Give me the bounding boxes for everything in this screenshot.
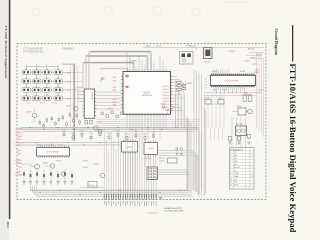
- key switch SW1001: [22, 68, 31, 74]
- RC network under voice IC: [205, 100, 211, 105]
- MCU left pins: [121, 75, 123, 77]
- svg-text:SW+: SW+: [234, 158, 238, 160]
- red arrows at MCU left: [126, 75, 130, 78]
- svg-text:R1007: R1007: [108, 109, 113, 111]
- svg-text:3: 3: [230, 158, 231, 160]
- svg-text:MC1001: MC1001: [236, 124, 243, 126]
- transistor Q1012: [50, 164, 54, 168]
- long verticals from MCU right bus: [193, 69, 195, 190]
- svg-text:C1050: C1050: [143, 134, 148, 136]
- svg-text:4: 4: [230, 161, 231, 163]
- svg-text:C1041: C1041: [47, 144, 52, 146]
- svg-text:X1003: X1003: [89, 185, 94, 187]
- svg-text:BU4094: BU4094: [91, 93, 93, 101]
- wires into DIP left: [78, 90, 83, 92]
- svg-text:R1049: R1049: [134, 131, 139, 133]
- caps row above bus: [101, 112, 103, 115]
- IC Q1002 (keypad interface, 16-pin DIP): [84, 89, 94, 118]
- punch hole marks: [32, 8, 40, 16]
- svg-text:8: 8: [230, 173, 231, 175]
- svg-text:R1018: R1018: [205, 98, 210, 100]
- key switch SW1013: [22, 94, 31, 100]
- right horizontal feeds: [249, 51, 264, 53]
- wires top of keypad columns: [25, 64, 27, 66]
- svg-text:HD404344: HD404344: [142, 95, 153, 97]
- svg-text:Q1009: Q1009: [148, 148, 154, 150]
- svg-text:6: 6: [230, 167, 231, 169]
- svg-text:C1012: C1012: [160, 104, 165, 106]
- key switch SW1009: [22, 86, 31, 92]
- svg-text:Q1004 T6658A: Q1004 T6658A: [224, 80, 239, 83]
- svg-text:C1002: C1002: [156, 46, 161, 48]
- svg-text:C1030: C1030: [159, 161, 164, 163]
- svg-text:C1001: C1001: [145, 46, 150, 48]
- bus from J1001 to right: [158, 169, 188, 171]
- analog switch IC Q1010 (wide DIP): [37, 148, 70, 157]
- svg-text:D3: D3: [205, 88, 207, 90]
- svg-text:AF OUT: AF OUT: [18, 141, 25, 144]
- svg-text:C1044: C1044: [89, 133, 94, 135]
- key switch SW1007: [43, 77, 52, 83]
- svg-text:R1026: R1026: [56, 161, 61, 163]
- svg-text:11: 11: [230, 182, 232, 184]
- svg-text:Q1008: Q1008: [127, 147, 133, 149]
- op-amp Q1009 (DIP): [144, 143, 158, 155]
- key switch SW1008: [54, 77, 63, 83]
- svg-text:R40/D4: R40/D4: [162, 98, 168, 100]
- key switch SW1002: [32, 68, 41, 74]
- svg-text:AF1: AF1: [18, 149, 21, 152]
- edge connector pin labels: [103, 201, 106, 204]
- svg-text:D2: D2: [205, 85, 207, 87]
- svg-text:FTT-10/A16S 16-Button Digital: FTT-10/A16S 16-Button Digital Voice Keyp…: [288, 64, 297, 234]
- horizontal wires under voice IC: [204, 92, 262, 94]
- coupling parts on centre bus: [63, 133, 65, 136]
- analog switch Q1008 (DIP): [122, 142, 138, 153]
- keypad row wires KR0-KR3: [22, 71, 67, 73]
- svg-text:X1002: X1002: [187, 83, 192, 85]
- key switch SW1004: [54, 68, 63, 74]
- key switch SW1015: [43, 94, 52, 100]
- svg-text:R1002: R1002: [26, 103, 31, 105]
- svg-text:R1041: R1041: [62, 130, 67, 132]
- connector signal table: [230, 148, 255, 190]
- key switch SW1014: [32, 94, 41, 100]
- horizontal wire bus centre: [22, 127, 199, 129]
- MCU bottom pins: [126, 114, 128, 116]
- junction dots: [30, 127, 31, 128]
- key switch SW1003: [43, 68, 52, 74]
- wires from Q1010 top: [37, 143, 39, 146]
- voice synthesizer IC Q1004 T6658A (SSOP): [210, 75, 255, 85]
- svg-text:C1022: C1022: [245, 61, 250, 63]
- svg-text:R1004: R1004: [52, 103, 57, 105]
- svg-text:R1030: R1030: [83, 161, 88, 163]
- key switch SW1006: [32, 77, 41, 83]
- MCU right pin wires: [173, 75, 178, 77]
- svg-text:R1001: R1001: [186, 45, 191, 47]
- audio amp Q1006: [238, 108, 246, 115]
- svg-text:D1: D1: [205, 82, 207, 84]
- filter box right of op-amp: [168, 158, 178, 163]
- key switch SW1016: [54, 94, 63, 100]
- right vertical bus bundle: [186, 117, 188, 191]
- svg-text:Circuit Diagram: Circuit Diagram: [274, 29, 279, 56]
- voice IC bottom wires: [214, 87, 216, 90]
- pin group underline: [148, 212, 159, 214]
- horizontal line to X1003: [80, 187, 104, 189]
- MCU Q1001 HD404344 (QFP): [123, 72, 171, 115]
- capacitors below resonator: [162, 106, 165, 108]
- svg-text:R20/D2: R20/D2: [162, 92, 168, 94]
- ground symbols mic: [228, 142, 231, 144]
- transistor Q1013: [61, 172, 65, 176]
- crystal X1001: [204, 48, 213, 59]
- svg-text:RST: RST: [18, 139, 21, 141]
- svg-text:12: 12: [230, 185, 232, 187]
- key switch SW1005: [22, 77, 31, 83]
- svg-text:A0-A3: A0-A3: [240, 70, 245, 73]
- svg-text:7: 7: [230, 170, 231, 172]
- svg-text:TC4W53: TC4W53: [144, 158, 151, 160]
- svg-text:9: 9: [230, 176, 231, 178]
- MCU top pin wires: [126, 52, 128, 70]
- caps to ground right of op-amp: [176, 148, 178, 151]
- svg-text:GND: GND: [18, 174, 23, 176]
- svg-text:R1003: R1003: [40, 103, 45, 105]
- svg-text:Q1001: Q1001: [143, 92, 151, 94]
- svg-text:Q1003: Q1003: [26, 112, 31, 114]
- thin core wires in bus: [90, 51, 150, 53]
- svg-text:FTT-10/A16S-06: FTT-10/A16S-06: [24, 50, 44, 54]
- svg-text:10-1: 10-1: [6, 222, 10, 229]
- svg-text:to MAIN Unit (13P): to MAIN Unit (13P): [164, 207, 182, 210]
- supply wires along right border: [256, 52, 258, 128]
- svg-text:Q1002: Q1002: [77, 87, 84, 89]
- svg-text:D1001: D1001: [83, 167, 88, 169]
- key switch SW1012: [54, 86, 63, 92]
- verticals from voice IC to table: [231, 117, 233, 147]
- bottom horizontal wire bus: [31, 189, 188, 191]
- board edge connector pins: [103, 194, 106, 200]
- wire stubs entering left border: [15, 129, 23, 131]
- transistors Q1004 Q1007: [94, 126, 98, 130]
- wires DIP to MCU: [96, 91, 121, 93]
- MCU right pins: [171, 75, 173, 77]
- svg-text:AF2: AF2: [18, 152, 21, 155]
- left page edge strip: [0, 0, 9, 240]
- schematic dashed border: [17, 44, 266, 200]
- electret microphone MC1001: [236, 126, 247, 136]
- svg-text:C1046: C1046: [107, 133, 112, 135]
- red check mark 7: [101, 77, 105, 81]
- svg-text:TP1001: TP1001: [204, 62, 211, 64]
- wire bus from MCU top to left circuits: [89, 51, 151, 53]
- key switch SW1011: [43, 86, 52, 92]
- svg-text:R1040: R1040: [37, 144, 42, 146]
- svg-text:No SIGNAL I/O: No SIGNAL I/O: [230, 149, 243, 152]
- svg-text:R1031: R1031: [257, 54, 262, 56]
- svg-text:R1051: R1051: [151, 131, 156, 133]
- svg-text:C1024: C1024: [258, 90, 263, 92]
- svg-text:10: 10: [230, 179, 232, 181]
- caps under DIP: [85, 121, 88, 124]
- svg-text:R10/D1: R10/D1: [162, 89, 168, 91]
- svg-text:C1005: C1005: [97, 122, 102, 124]
- svg-text:2: 2: [230, 155, 231, 157]
- ceramic resonator X1002 network: [178, 79, 180, 95]
- svg-text:C1020: C1020: [218, 98, 223, 100]
- svg-text:R1042: R1042: [58, 144, 63, 146]
- svg-text:1: 1: [230, 152, 231, 154]
- verticals voice IC to mic area: [210, 127, 212, 141]
- top rail wire: [143, 47, 264, 49]
- wires dropping to board edge connector: [103, 132, 105, 200]
- svg-text:RST: RST: [234, 182, 237, 184]
- verticals left of table: [204, 93, 206, 128]
- svg-text:FT-10R Technical Supplement: FT-10R Technical Supplement: [4, 26, 8, 79]
- mic bias parts: [229, 137, 232, 141]
- svg-text:C1033: C1033: [93, 164, 98, 166]
- svg-text:R1022: R1022: [159, 158, 164, 160]
- svg-text:Q1006: Q1006: [236, 106, 241, 108]
- oscillator circuit X1001 box: [180, 52, 194, 65]
- jack J1001: [147, 167, 158, 180]
- nested bus from op-amp to right bundle: [158, 150, 193, 152]
- vertical wire bundle to lower left circuits: [73, 64, 75, 142]
- svg-text:C1042: C1042: [71, 133, 76, 135]
- bias resistor row with grounds: [23, 170, 25, 173]
- svg-text:SW: SW: [18, 163, 21, 165]
- svg-text:Q1010 BU4066: Q1010 BU4066: [47, 151, 59, 153]
- svg-text:R1047: R1047: [116, 130, 121, 132]
- svg-text:R1025: R1025: [43, 163, 48, 165]
- mid horizontal wires: [96, 118, 199, 120]
- diodes and caps mid-left: [39, 122, 41, 124]
- voice IC top wires: [212, 71, 214, 74]
- wires from Q1008 bottom to edge connector: [122, 154, 124, 190]
- jack pins to edge: [146, 180, 148, 200]
- keypad column bus wires: [25, 67, 27, 99]
- reset IC X1003: [88, 182, 97, 188]
- bus pair left of table: [203, 108, 205, 196]
- svg-text:C1009: C1009: [229, 51, 234, 53]
- page spine line: [9, 0, 11, 219]
- transistor Q1015 below keypad: [74, 106, 78, 110]
- svg-text:F3608101: F3608101: [62, 47, 74, 51]
- title rule: [292, 25, 293, 62]
- svg-text:R30/D3: R30/D3: [162, 95, 168, 97]
- svg-text:R1045: R1045: [98, 130, 103, 132]
- thin verticals beside bundle: [70, 67, 72, 128]
- wires from Q1009 bottom to jack: [145, 156, 147, 167]
- arrow on border: [159, 197, 163, 199]
- wires from MCU bottom pins: [126, 116, 128, 127]
- transistor Q1011: [35, 164, 40, 169]
- right-side verticals to mid bus: [175, 95, 177, 127]
- filter parts right: [243, 95, 246, 102]
- transistor Q1003: [32, 113, 36, 117]
- svg-text:PTT2: PTT2: [18, 167, 22, 169]
- transistor Q1014: [100, 173, 104, 177]
- wires keypad to interface IC: [67, 71, 83, 73]
- MCU top pins: [126, 70, 128, 72]
- svg-text:C1048: C1048: [125, 133, 130, 135]
- horizontal wire bus lower: [22, 142, 120, 144]
- svg-text:D0: D0: [205, 79, 207, 81]
- svg-text:PTT: PTT: [234, 152, 237, 154]
- svg-text:AF1001: AF1001: [248, 48, 254, 51]
- svg-text:5: 5: [230, 164, 231, 166]
- svg-text:via P1001 B01 (13P): via P1001 B01 (13P): [164, 211, 183, 213]
- vertical wires right of MCU: [175, 80, 177, 127]
- svg-text:4.19MHz: 4.19MHz: [129, 61, 137, 63]
- key switch SW1010: [32, 86, 41, 92]
- svg-text:R00/D0: R00/D0: [162, 86, 168, 88]
- svg-text:R1043: R1043: [80, 130, 85, 132]
- svg-text:AF OUT: AF OUT: [234, 166, 240, 169]
